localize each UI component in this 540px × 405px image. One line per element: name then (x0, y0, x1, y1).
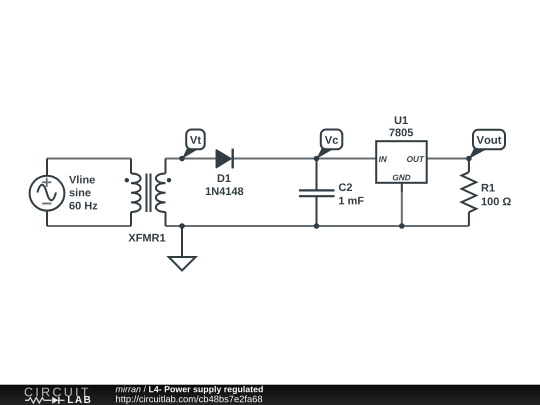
wire primary top stub (130, 159, 132, 174)
junction at C2 bottom (314, 223, 320, 229)
wire net source to primary top (47, 158, 131, 160)
source minus mark (42, 203, 51, 205)
pin label IN (379, 156, 387, 162)
wire net secondary top to diode anode (166, 158, 217, 160)
label U1 7805 (389, 116, 413, 136)
wire R1 top stub (468, 159, 470, 173)
wire U1 GND pin stub (401, 183, 403, 192)
wire primary bottom stub (130, 212, 132, 226)
wire net U1 OUT to Vout node (427, 158, 469, 160)
label XFMR1 (128, 234, 165, 242)
wire net U1 GND pin to bottom rail (401, 191, 403, 226)
transformer XFMR1 core (147, 174, 151, 213)
wire net source to primary bottom (47, 225, 131, 227)
wire source top terminal stub (46, 159, 48, 177)
junction at U1 GND bottom (399, 223, 405, 229)
CircuitLab logo diode (52, 397, 64, 404)
transformer XFMR1 secondary polarity dot (167, 178, 171, 182)
junction at Vout node (466, 156, 472, 162)
pin label GND (393, 175, 411, 181)
CircuitLab logo LAB (68, 396, 90, 403)
junction at Vc node (314, 156, 320, 162)
wire secondary bottom stub (165, 212, 167, 226)
label C2 1 mF (339, 183, 364, 204)
transformer XFMR1 secondary winding (156, 174, 166, 213)
transformer XFMR1 primary polarity dot (125, 178, 129, 182)
wire secondary top stub (165, 159, 167, 174)
CircuitLab logo CIRCUIT (25, 388, 89, 397)
node Vt flag (182, 130, 205, 159)
wire net bottom rail (166, 225, 469, 227)
junction at Vt node (179, 156, 185, 162)
wire net diode cathode to U1 IN (234, 158, 376, 160)
wire R1 bottom stub (468, 212, 470, 226)
node Vout flag (469, 130, 505, 159)
node Vc flag (317, 130, 343, 159)
resistor R1 (462, 172, 477, 212)
footer title line (116, 386, 263, 394)
footer url line (116, 395, 262, 404)
label R1 100 ohm (482, 184, 511, 205)
wire source bottom terminal stub (46, 211, 48, 227)
junction at ground (179, 223, 185, 229)
regulator U1 7805 box (376, 141, 427, 183)
CircuitLab logo resistor zigzag (25, 398, 52, 403)
label D1 1N4148 (206, 174, 244, 195)
label Vline sine 60 Hz (69, 175, 97, 209)
wire C2 top lead (316, 159, 318, 191)
diode D1 (216, 149, 232, 169)
transformer XFMR1 primary winding (131, 174, 141, 213)
pin label OUT (407, 156, 424, 162)
source plus mark (42, 178, 51, 187)
voltage source V1 Vline (30, 176, 65, 211)
wire C2 bottom lead (316, 197, 318, 227)
capacitor C2 (299, 190, 335, 196)
ground (169, 226, 196, 271)
